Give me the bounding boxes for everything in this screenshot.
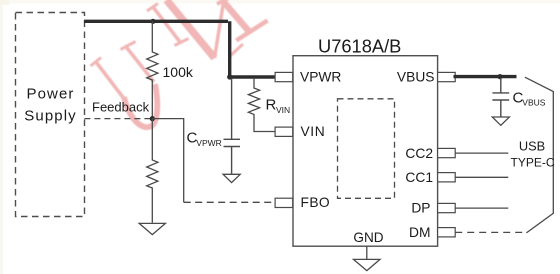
svg-text:Supply: Supply <box>24 108 76 125</box>
svg-text:USB: USB <box>519 139 545 154</box>
svg-text:Power: Power <box>26 86 74 103</box>
IC U7618A/B <box>293 36 438 247</box>
svg-text:CC1: CC1 <box>405 170 433 185</box>
power supply box <box>16 13 85 217</box>
capacitor CVBUS <box>492 78 545 117</box>
svg-text:DM: DM <box>409 225 430 240</box>
wire: CC2 line <box>455 152 508 154</box>
wire: CC1 line <box>455 176 508 178</box>
node: feedback junction <box>150 116 155 121</box>
svg-text:VIN: VIN <box>276 105 290 115</box>
wire: DP line <box>455 207 508 209</box>
ground: below GND pin <box>354 259 381 270</box>
svg-text:VPWR: VPWR <box>300 70 341 85</box>
resistor R2 (lower divider) <box>147 119 158 223</box>
svg-text:VIN: VIN <box>301 124 326 139</box>
svg-text:VBUS: VBUS <box>397 70 435 85</box>
ground: below CVBUS <box>492 117 509 125</box>
wire: thick VBUS <box>454 75 517 78</box>
node: CVBUS tap <box>497 74 502 79</box>
svg-text:100k: 100k <box>163 64 194 80</box>
svg-text:CC2: CC2 <box>405 146 433 161</box>
wire: dashed into FBO pin <box>184 201 275 203</box>
svg-text:TYPE-C: TYPE-C <box>510 155 554 169</box>
capacitor CVPWR <box>187 79 241 174</box>
pin GND <box>353 230 383 259</box>
pin VPWR <box>275 70 341 85</box>
node: junction 100k/top wire <box>150 19 155 24</box>
svg-text:FBO: FBO <box>301 195 331 210</box>
watermark UNI <box>91 0 268 127</box>
wire: feedback to FBO (solid elbow) <box>152 119 183 203</box>
pin VBUS <box>397 70 455 85</box>
inner dashed block <box>338 99 395 199</box>
svg-text:U7618A/B: U7618A/B <box>318 36 401 57</box>
connector USB TYPE-C bracket <box>510 77 554 233</box>
wire: thick VPWR supply wire <box>84 21 278 77</box>
pin FBO <box>275 195 330 210</box>
pin DM <box>409 225 455 240</box>
svg-text:R: R <box>266 97 277 114</box>
svg-text:Feedback: Feedback <box>92 100 150 115</box>
pin CC1 <box>405 170 455 185</box>
ground: below R2 <box>139 223 165 234</box>
svg-text:DP: DP <box>411 201 430 216</box>
svg-text:VPWR: VPWR <box>196 138 222 148</box>
wire: DM dashed line <box>455 231 523 233</box>
pin VIN <box>275 124 325 139</box>
ground: below CVPWR <box>223 174 240 182</box>
wire: Feedback dashed from supply <box>84 100 152 119</box>
svg-text:VBUS: VBUS <box>522 98 545 108</box>
pin DP <box>411 201 455 216</box>
node: junction corner CVPWR tap <box>227 74 232 79</box>
pin CC2 <box>405 146 455 161</box>
svg-text:GND: GND <box>353 230 383 245</box>
resistor 100k <box>147 21 194 118</box>
resistor RVIN <box>248 79 290 132</box>
